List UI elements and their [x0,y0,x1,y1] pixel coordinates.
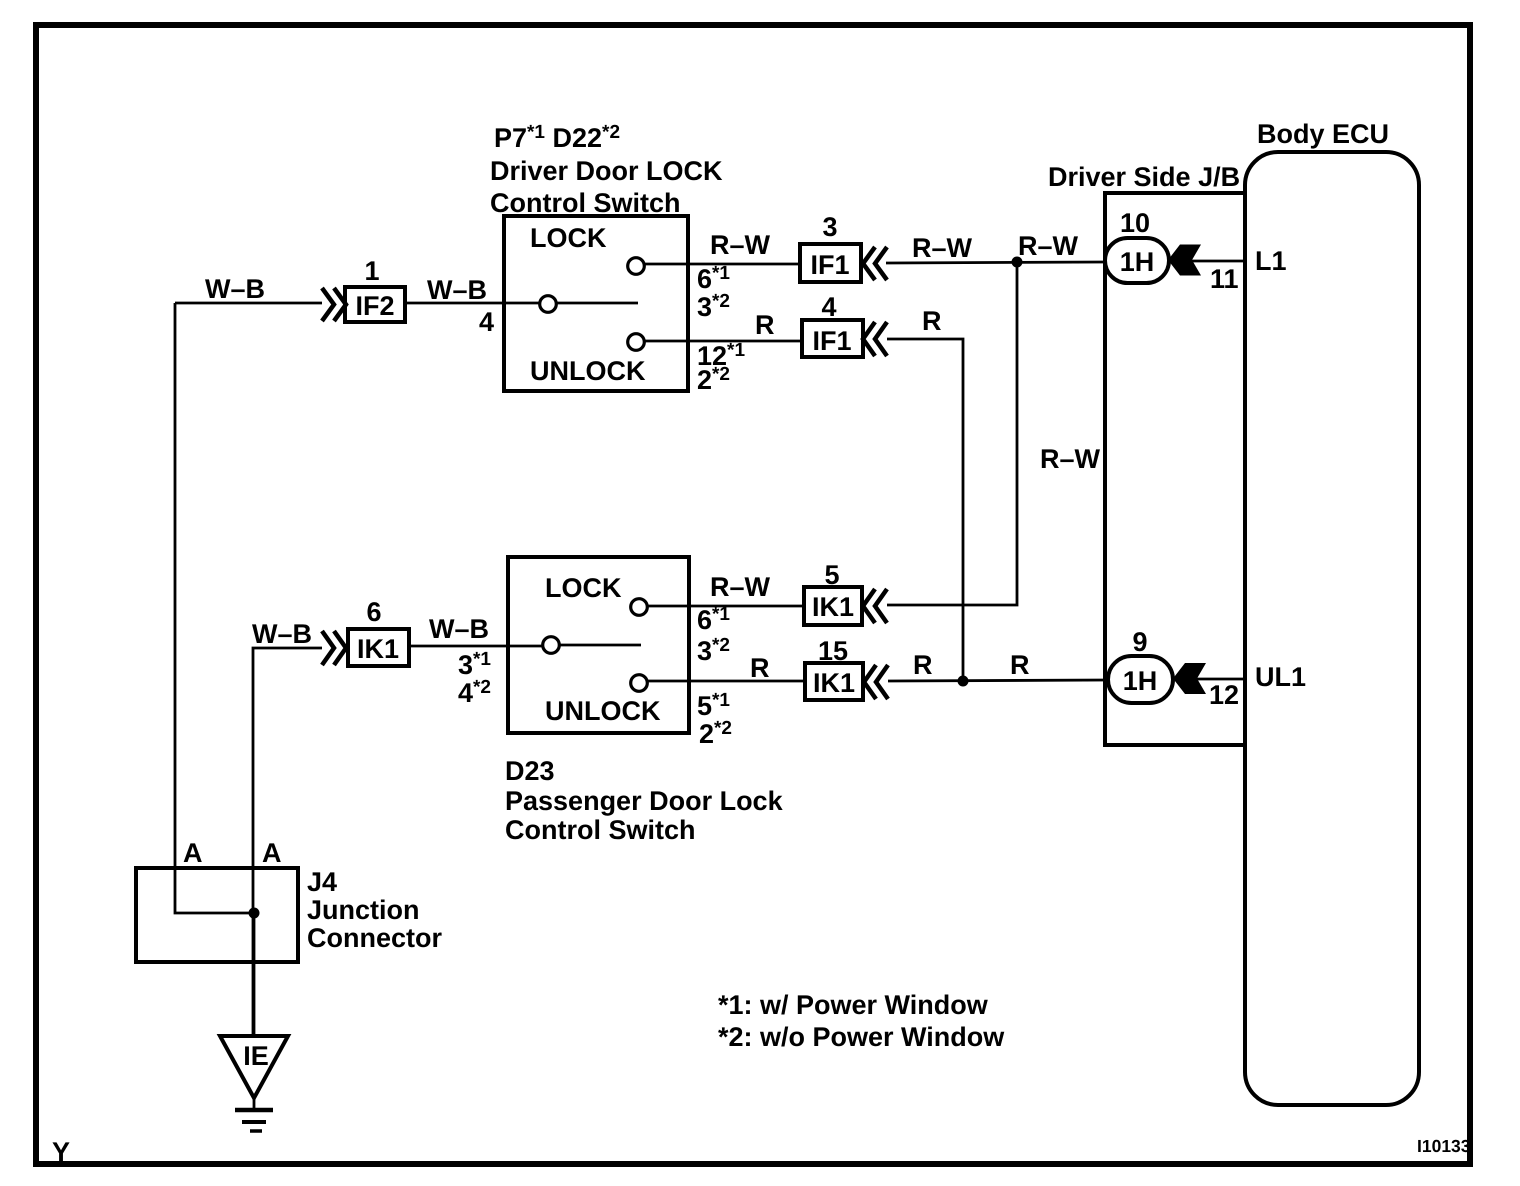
svg-text:Control Switch: Control Switch [505,815,696,845]
wire R UNLOCK contact to IK1-15 [648,680,805,683]
svg-text:UNLOCK: UNLOCK [530,356,646,386]
pin label 4 [479,307,494,337]
svg-text:R–W: R–W [710,572,771,602]
label UL1 [1255,662,1306,692]
svg-text:Body ECU: Body ECU [1257,119,1389,149]
svg-text:L1: L1 [1255,246,1287,276]
wire W-B IF2 to switch [405,302,539,305]
pin label A (left) [183,838,203,868]
svg-text:IF1: IF1 [812,326,851,356]
wire R UNLOCK contact to IF1-4 [645,340,802,343]
label R [750,653,770,683]
svg-text:Control Switch: Control Switch [490,188,681,218]
svg-text:*2: w/o Power Window: *2: w/o Power Window [718,1022,1005,1052]
svg-text:D23: D23 [505,756,555,786]
contact LOCK (passenger switch) [631,599,648,616]
svg-text:R: R [922,306,942,336]
label R-W [1018,231,1079,261]
label P7 D22 Driver Door LOCK Control Switch [490,122,723,218]
svg-text:6: 6 [366,597,381,627]
contact LOCK (driver switch) [628,258,645,275]
svg-text:UNLOCK: UNLOCK [545,696,661,726]
svg-text:I10133: I10133 [1417,1136,1471,1156]
wire L1 [1192,260,1245,263]
pin label 12 [1209,680,1239,710]
svg-text:1: 1 [364,256,379,286]
svg-text:1H: 1H [1120,247,1155,277]
arrow into 1H pin 10 [1168,245,1201,276]
svg-text:W–B: W–B [427,275,487,305]
svg-text:LOCK: LOCK [545,573,622,603]
label R-W vertical [1040,444,1101,474]
svg-text:4: 4 [479,307,494,337]
label R [922,306,942,336]
note *1 w/ Power Window [718,990,989,1020]
label W-B [205,274,265,304]
wire W-B IK1-6 to switch [409,645,542,648]
svg-text:IE: IE [243,1041,269,1071]
svg-text:Connector: Connector [307,923,442,953]
pin label A (right) [262,838,282,868]
svg-text:W–B: W–B [429,614,489,644]
pin label 2*2 [699,718,732,749]
pin label 3*2 [697,291,730,322]
label L1 [1255,246,1287,276]
wire W-B from left border area to IF2 [175,302,322,305]
pin label 2*2 [697,364,730,395]
svg-text:R–W: R–W [1018,231,1079,261]
svg-text:R: R [755,310,775,340]
switch box Driver Door Lock Control Switch [504,216,688,391]
label R-W [710,572,771,602]
svg-text:Junction: Junction [307,895,420,925]
svg-text:LOCK: LOCK [530,223,607,253]
connector IF1 pin 3 [800,212,887,282]
svg-text:UL1: UL1 [1255,662,1306,692]
label W-B [252,619,312,649]
wire R-W LOCK contact to IF1 [645,263,800,266]
svg-text:P7*1 D22*2: P7*1 D22*2 [494,122,620,153]
svg-text:12: 12 [1209,680,1239,710]
svg-text:R: R [750,653,770,683]
pin label 4*2 [458,677,491,708]
switch box Passenger Door Lock Control Switch [508,557,689,733]
wire R-W junction down to IK1-5 [887,262,1017,605]
junction node inside J4 [249,908,260,919]
label D23 Passenger Door Lock Control Switch [505,756,784,845]
svg-text:IK1: IK1 [813,668,855,698]
svg-text:3: 3 [822,212,837,242]
svg-text:A: A [183,838,203,868]
junction node R [958,676,969,687]
label I10133 [1417,1136,1471,1156]
svg-text:*1: w/ Power Window: *1: w/ Power Window [718,990,989,1020]
connector 1H pin 9 [1108,627,1173,703]
svg-text:1H: 1H [1123,666,1158,696]
wire UL1 [1197,678,1245,681]
svg-text:R–W: R–W [1040,444,1101,474]
svg-text:W–B: W–B [252,619,312,649]
contact UNLOCK (passenger switch) [631,675,648,692]
svg-text:W–B: W–B [205,274,265,304]
svg-text:Y: Y [52,1137,70,1167]
label W-B [427,275,487,305]
ground IE triangle [220,1036,288,1098]
svg-text:R: R [1010,650,1030,680]
contact UNLOCK (driver switch) [628,334,645,351]
label LOCK (passenger switch) [545,573,622,603]
label Y [52,1137,70,1167]
note *2 w/o Power Window [718,1022,1005,1052]
label UNLOCK (driver switch) [530,356,646,386]
junction connector J4 [136,867,442,962]
label R [913,650,933,680]
connector IF2 pin 1 [322,256,405,322]
connector IK1 pin 6 [322,597,409,666]
wire R IF1-4 down to junction with IK1-15 wire [887,339,963,681]
svg-text:R–W: R–W [710,230,771,260]
arrow into 1H pin 9 [1173,663,1206,694]
contact common (driver switch) [540,296,638,313]
svg-text:IF1: IF1 [810,250,849,280]
svg-text:9: 9 [1132,627,1147,657]
label R [755,310,775,340]
svg-text:R: R [913,650,933,680]
svg-text:4: 4 [821,292,836,322]
svg-text:Driver Side J/B: Driver Side J/B [1048,162,1240,192]
pin label 6*1 [697,263,730,294]
connector IK1 pin 5 [804,560,887,625]
wire to ground through J4 [253,913,256,1036]
label UNLOCK (passenger switch) [545,696,661,726]
svg-text:R–W: R–W [912,233,973,263]
svg-text:J4: J4 [307,867,337,897]
label R [1010,650,1030,680]
svg-text:10: 10 [1120,208,1150,238]
pin label 11 [1210,264,1239,294]
svg-text:A: A [262,838,282,868]
svg-text:Passenger Door Lock: Passenger Door Lock [505,786,784,816]
wire R IK1-15 to 1H-9 [888,680,1108,681]
wire R-W IF1-3 to 1H-10 [886,262,1105,263]
junction node R-W [1012,257,1023,268]
pin label 3*2 [697,635,730,666]
connector IF1 pin 4 [802,292,887,357]
wire R-W LOCK contact to IK1-5 [648,605,804,608]
svg-text:IK1: IK1 [357,634,399,664]
connector 1H pin 10 [1105,208,1169,283]
svg-text:IF2: IF2 [355,291,394,321]
Driver Side J/B box [1048,162,1245,745]
pin label 12*1 [697,340,745,371]
pin label 5*1 [697,690,730,721]
label R-W [912,233,973,263]
label W-B [429,614,489,644]
label LOCK (driver switch) [530,223,607,253]
svg-text:Driver Door LOCK: Driver Door LOCK [490,156,723,186]
contact common (passenger switch) [543,637,641,654]
pin label 3*1 [458,649,491,680]
wire W-B vertical to J4 [175,303,254,913]
ground symbol [235,1098,273,1131]
svg-text:11: 11 [1210,264,1239,294]
connector IK1 pin 15 [805,636,888,700]
Body ECU box [1245,119,1419,1105]
svg-text:IK1: IK1 [812,592,854,622]
wire W-B from J4 riser to IK1-6 [253,648,322,1036]
pin label 6*1 [697,604,730,635]
label R-W [710,230,771,260]
